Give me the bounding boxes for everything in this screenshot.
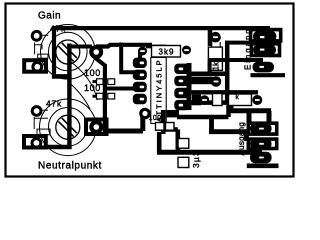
wire pot2 bottom L [44, 145, 72, 150]
wire pot1 lower L [52, 74, 72, 79]
svg-text:1k: 1k [212, 61, 221, 70]
pad Ausgang 1 [250, 123, 272, 134]
wire 3k9 riser from T2 [146, 45, 166, 49]
wire pot2 wiper to IC extra pad [106, 116, 143, 131]
pad Eingang 2 [253, 45, 276, 55]
wire down to Ausgang box2 [209, 118, 247, 142]
wire diode row to Ausgang box1 fork [229, 97, 271, 123]
wire pot1 wiper top bar [67, 45, 92, 49]
wire IC row1 right to riser [189, 41, 229, 103]
resistor 1k body [208, 47, 222, 70]
resistor 1k bottom pad [211, 76, 222, 87]
capacitor 100n pads [156, 123, 175, 131]
wire band to diode row [188, 90, 258, 94]
svg-text:Gain: Gain [38, 11, 61, 22]
wire IC row2 right to 1k bottom pad [189, 77, 213, 85]
diode small body [213, 94, 223, 106]
svg-text:Neutralpunkt: Neutralpunkt [38, 160, 102, 171]
pad P2 pin2 thick box [24, 136, 46, 148]
pad P1 pin2 donut [33, 62, 42, 71]
potentiometer P1 screw circle [56, 40, 80, 64]
wire to IC pin row3 [105, 87, 136, 91]
connector Ausgang box1 [248, 123, 276, 134]
resistor 1k top pad [210, 32, 221, 43]
pad P2 wiper thick box [86, 120, 107, 135]
capacitor 3u3 pads [178, 139, 189, 168]
wire Eingang bottom bar [251, 73, 286, 77]
svg-text:100: 100 [84, 83, 101, 93]
resistor 3k9 body [152, 46, 181, 58]
wire T1 top long trace [54, 28, 270, 76]
pad Eingang 3 [253, 62, 275, 73]
wire 3k9 left pad to IC row1 [138, 52, 142, 63]
wire wiper vertical through resistors [96, 52, 105, 133]
via pad near IC bottom [141, 109, 149, 117]
diode row left pad [200, 95, 210, 105]
silkscreen arc upper [69, 61, 98, 101]
resistor 3k9 right pad [182, 46, 191, 55]
potentiometer P1 middle circle [49, 32, 88, 71]
wire riser to IC pin row2 [119, 43, 136, 73]
silkscreen arc lower [68, 81, 91, 109]
svg-text:47k: 47k [50, 23, 66, 33]
connector Eingang box1 [251, 30, 281, 41]
IC body outline [151, 58, 166, 124]
resistor R2 100 pads [97, 93, 115, 99]
silkscreen P1 pads outline [35, 35, 49, 58]
wire Ausgang bottom bar [247, 164, 279, 169]
potentiometer P1 outer circle [41, 25, 96, 80]
diode big body [229, 94, 252, 106]
pad P1 pin1 donut [32, 31, 41, 40]
connector Ausgang box2 [248, 139, 276, 148]
svg-text:47k: 47k [46, 99, 62, 109]
pad P1 pin2 thick box [24, 60, 46, 71]
pad Eingang 1 [253, 31, 276, 42]
pad P2 pin1 donut [32, 107, 41, 116]
silkscreen P2 pads outline [34, 110, 50, 135]
diode right pad [252, 95, 262, 105]
wire long vertical pot1 to pot2 [67, 44, 71, 150]
IC pads right column with comb bar [187, 63, 192, 110]
svg-text:100: 100 [84, 68, 101, 78]
pad Ausgang 2 [250, 138, 272, 149]
wire T2 from wiper to 3k9 riser [96, 45, 152, 47]
svg-text:3µ3: 3µ3 [191, 150, 201, 168]
pad P2 pin2 donut [32, 139, 41, 148]
wire Eingang pad3 feed [208, 60, 263, 73]
IC pads left column [133, 58, 147, 105]
resistor 1k leads [212, 42, 221, 47]
wire long bottom horizontal to Ausgang pad3 [157, 150, 262, 155]
connector Eingang box2 [251, 44, 279, 56]
potentiometer P2 outer circle [40, 99, 97, 156]
potentiometer P2 middle circle [49, 108, 88, 147]
resistor 3k9 left pad [138, 47, 147, 56]
board frame [6, 4, 294, 177]
svg-text:Ausgang: Ausgang [237, 122, 246, 156]
pad Ausgang 3 [250, 152, 272, 164]
resistor R1 100 pads [97, 79, 115, 85]
potentiometer P2 screw circle [56, 115, 80, 139]
wire T1 to R 1k top pad [208, 29, 213, 47]
pad P1 wiper ring [91, 47, 101, 57]
svg-text:3k9: 3k9 [159, 48, 175, 57]
pad P2 wiper ring [91, 122, 101, 132]
wire Eingang box2 feed [225, 41, 258, 45]
svg-text:ATTINY45LP: ATTINY45LP [155, 58, 164, 122]
wire IC loop rows3-4 [177, 103, 229, 117]
wire row4-right to vertical [166, 110, 179, 117]
svg-text:Eingang: Eingang [244, 27, 253, 70]
